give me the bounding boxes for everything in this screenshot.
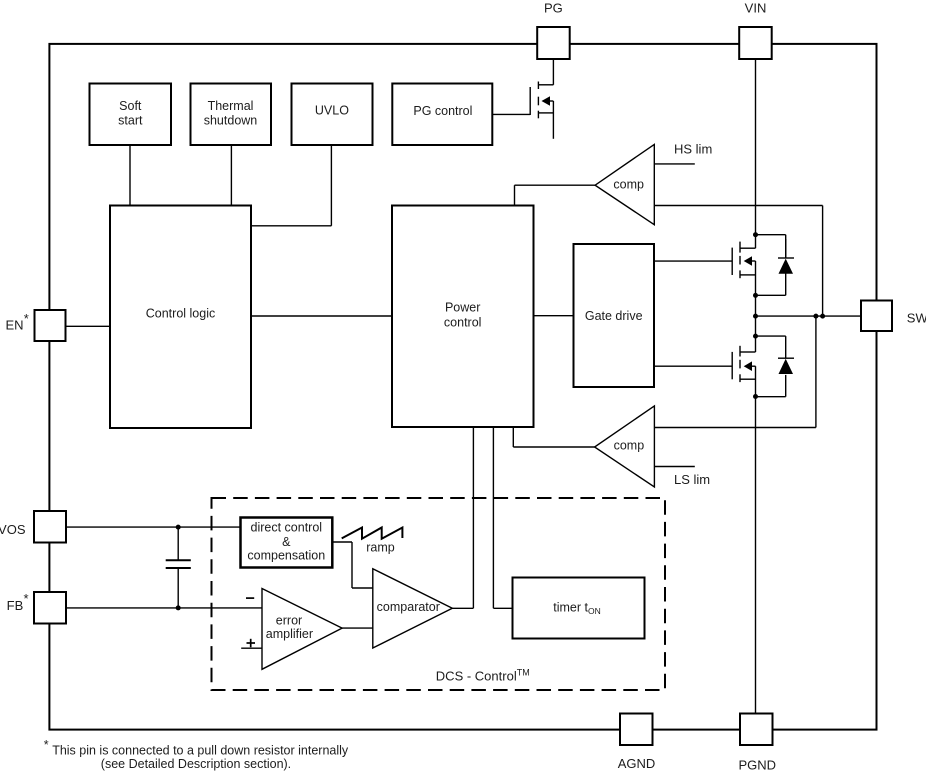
svg-text:ramp: ramp: [366, 541, 395, 555]
svg-text:comp: comp: [613, 177, 644, 191]
svg-text:control: control: [444, 316, 482, 330]
svg-text:comp: comp: [614, 438, 645, 452]
svg-text:VIN: VIN: [745, 1, 767, 16]
svg-text:AGND: AGND: [618, 756, 656, 771]
svg-text:compensation: compensation: [247, 549, 325, 563]
svg-text:Gate drive: Gate drive: [585, 309, 643, 323]
svg-text:Control logic: Control logic: [146, 307, 215, 321]
svg-text:FB: FB: [7, 598, 24, 613]
svg-text:PG control: PG control: [413, 104, 472, 118]
svg-text:Soft: Soft: [119, 99, 142, 113]
svg-text:&: &: [282, 535, 291, 549]
svg-text:SW: SW: [907, 311, 926, 326]
svg-text:error: error: [276, 614, 302, 628]
svg-text:*: *: [24, 591, 29, 606]
svg-text:HS lim: HS lim: [674, 142, 712, 157]
svg-text:amplifier: amplifier: [266, 627, 313, 641]
svg-text:*: *: [24, 311, 29, 326]
svg-text:PGND: PGND: [739, 758, 777, 773]
svg-text:VOS: VOS: [0, 522, 26, 537]
svg-text:This pin is connected to a pul: This pin is connected to a pull down res…: [52, 743, 349, 757]
svg-text:comparator: comparator: [377, 600, 440, 614]
svg-text:LS lim: LS lim: [674, 472, 710, 487]
svg-text:(see Detailed Description sect: (see Detailed Description section).: [101, 757, 291, 771]
svg-text:shutdown: shutdown: [204, 114, 258, 128]
svg-text:EN: EN: [5, 318, 23, 333]
svg-text:start: start: [118, 114, 143, 128]
svg-text:Power: Power: [445, 301, 480, 315]
svg-text:PG: PG: [544, 1, 563, 16]
svg-text:direct control: direct control: [251, 520, 323, 534]
svg-text:Thermal: Thermal: [208, 99, 254, 113]
svg-text:UVLO: UVLO: [315, 103, 349, 117]
svg-text:DCS - ControlTM: DCS - ControlTM: [436, 667, 530, 683]
svg-text:*: *: [44, 738, 49, 752]
